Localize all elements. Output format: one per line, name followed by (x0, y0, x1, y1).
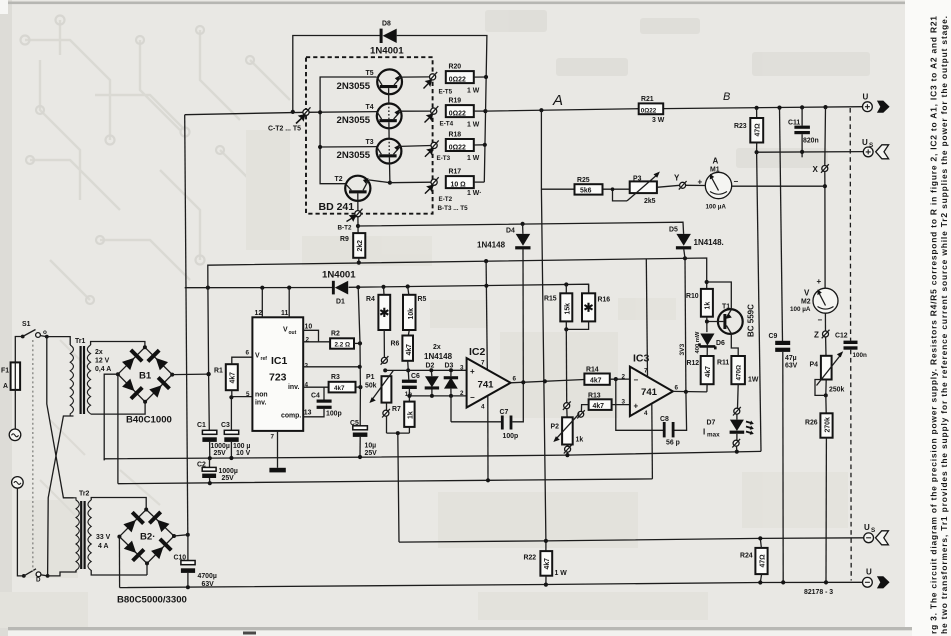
capacitor C3 (221, 422, 251, 458)
marker X (813, 164, 829, 174)
svg-text:IC1: IC1 (271, 355, 288, 367)
line L (raw supply pull-up) (208, 258, 707, 289)
node R1 bottom pin5 (229, 395, 233, 399)
wire P1/R7 bottoms to sense (387, 433, 410, 542)
svg-text:B40C1000: B40C1000 (126, 415, 172, 426)
pin 3 (303, 362, 360, 369)
svg-text:R17: R17 (449, 169, 462, 176)
resistor R5 (403, 287, 426, 336)
svg-text:V: V (804, 288, 810, 297)
transistor T1 BC559C (707, 282, 756, 356)
IC3 output line (673, 390, 707, 393)
node M2 column top (823, 105, 827, 109)
IC3 pin4 stub to rail2 (651, 404, 654, 479)
svg-text:7: 7 (271, 434, 275, 441)
IC2 pin7 stub (486, 261, 487, 369)
svg-text:1N4001: 1N4001 (370, 46, 404, 57)
node R23 top (755, 106, 759, 110)
M2 column vertical (824, 107, 827, 288)
svg-text:U: U (866, 567, 872, 576)
resistor R26 (805, 395, 833, 582)
svg-text:11: 11 (281, 310, 288, 317)
capacitor C1 (197, 422, 230, 459)
svg-text:100p: 100p (326, 411, 342, 418)
svg-text:R2: R2 (331, 331, 340, 338)
transistor T2 BD241 (319, 176, 390, 213)
svg-text:3: 3 (460, 364, 464, 371)
svg-text:4k7: 4k7 (544, 558, 551, 570)
potentiometer P2 (551, 401, 584, 455)
capacitor C8 feedback (616, 379, 687, 446)
svg-text:4k7: 4k7 (406, 344, 413, 356)
svg-text:U: U (862, 138, 868, 147)
svg-text:1000µ: 1000µ (211, 443, 230, 450)
svg-text:T2: T2 (335, 176, 343, 183)
svg-text:470Ω: 470Ω (736, 365, 743, 381)
svg-text:BD 241: BD 241 (319, 201, 355, 213)
svg-text:63V: 63V (785, 363, 798, 370)
svg-text:R21: R21 (641, 96, 654, 103)
wire terminal2 to bottom switch (17, 488, 23, 576)
resistor R2 (330, 331, 360, 349)
svg-text:100p: 100p (503, 433, 519, 440)
Us plus sense line (757, 151, 864, 154)
marker B-T2 (338, 193, 363, 231)
svg-text:D5: D5 (669, 227, 678, 234)
svg-text:270k: 270k (825, 417, 832, 432)
line K (base drive) (358, 222, 684, 234)
LED D7 (703, 407, 754, 452)
marker Z (814, 313, 830, 339)
svg-text:10: 10 (305, 324, 313, 331)
svg-text:1 W: 1 W (467, 122, 480, 129)
node rail / shunt tap (539, 108, 543, 112)
node T1 base R10 D6 (705, 320, 709, 324)
svg-text:P4: P4 (810, 361, 819, 368)
svg-text:0Ω22: 0Ω22 (449, 77, 466, 84)
wire Tr1 sec bottom to B1 (91, 402, 146, 414)
svg-text:S: S (871, 527, 875, 534)
svg-text:100n: 100n (853, 352, 868, 359)
pin3 line (385, 369, 466, 371)
svg-text:4: 4 (481, 403, 485, 410)
resistor R17 (446, 169, 485, 197)
svg-text:5k6: 5k6 (580, 188, 592, 195)
wire Tr2 sec bottom to B2 (91, 570, 147, 575)
svg-text:C11: C11 (788, 119, 800, 126)
svg-text:C9: C9 (769, 333, 778, 340)
svg-text:250k: 250k (829, 386, 844, 393)
svg-text:10 V: 10 V (236, 450, 251, 457)
wire Tr1 primary bottom crossover (48, 416, 74, 576)
transistor T3 2N3055 (337, 139, 432, 164)
svg-text:6: 6 (246, 350, 250, 357)
svg-text:R16: R16 (598, 296, 611, 303)
svg-text:M2: M2 (801, 298, 811, 305)
Us minus sense line (399, 538, 864, 542)
wire Tr2 sec top to B2 (91, 498, 146, 510)
node rail M pin12 (260, 286, 264, 290)
svg-text:D8: D8 (382, 21, 391, 28)
svg-text:C8: C8 (660, 416, 669, 423)
pin 10 and pin 2 jumper (303, 324, 330, 344)
svg-text:out: out (289, 330, 297, 336)
resistor R10 (686, 289, 713, 332)
svg-text:25V: 25V (222, 475, 235, 482)
collector bus (320, 77, 377, 184)
svg-text:U: U (863, 93, 869, 102)
svg-text:R20: R20 (449, 64, 462, 71)
svg-text:1 W·: 1 W· (467, 190, 482, 197)
resistor R19 (446, 98, 486, 129)
resistor R21 (639, 96, 665, 124)
svg-text:2: 2 (306, 337, 310, 344)
wire base to R9 (357, 217, 359, 233)
main positive rail (485, 107, 862, 111)
bottom rail (U minus) (120, 582, 863, 587)
wire fuse to mains terminal (14, 390, 16, 429)
svg-text:13: 13 (304, 410, 312, 417)
svg-text:R6: R6 (391, 340, 400, 347)
potentiometer P3 (603, 172, 680, 205)
resistor R23 (734, 108, 763, 152)
capacitor C5 (350, 420, 377, 457)
diode on BR edge (148, 376, 171, 399)
rail1 right end riser to Us+ (757, 152, 761, 451)
svg-text:T3: T3 (366, 139, 374, 146)
svg-text:3: 3 (622, 398, 626, 405)
transistor T5 2N3055 (337, 69, 430, 94)
svg-text:B: B (723, 91, 730, 103)
IC1 723 voltage regulator (252, 317, 303, 431)
wire B2 bottom vertex to AC line (146, 563, 148, 575)
voltmeter M2 (790, 277, 838, 325)
svg-text:T4: T4 (366, 104, 374, 111)
node rail M pin11 (287, 286, 291, 290)
capacitor C2 (197, 458, 238, 483)
capacitor C10 (174, 535, 217, 589)
svg-text:B-T2: B-T2 (338, 225, 352, 232)
svg-text:S1: S1 (22, 321, 31, 328)
svg-text:2N3055: 2N3055 (337, 150, 371, 161)
svg-text:+: + (470, 367, 475, 376)
SIDEBAR (905, 0, 951, 636)
svg-text:E-T4: E-T4 (440, 121, 454, 128)
resistor R11 (717, 356, 759, 408)
resistor R20 (446, 64, 486, 95)
svg-text:820n: 820n (803, 138, 819, 145)
svg-text:2x: 2x (95, 349, 103, 356)
svg-text:inv.: inv. (288, 384, 299, 391)
marker E-T3 (425, 140, 451, 162)
rail 2 (118, 479, 653, 484)
switch linkage (dashed) (32, 340, 34, 571)
svg-text:B80C5000/3300: B80C5000/3300 (117, 595, 187, 606)
capacitor C6 (402, 373, 420, 402)
diode D4 (477, 224, 531, 382)
svg-text:Y: Y (674, 173, 680, 182)
resistor R1 (214, 357, 252, 397)
svg-text:D7: D7 (707, 419, 716, 426)
svg-text:100 µA: 100 µA (790, 306, 811, 313)
wire B2 minus to bottom rail (118, 537, 120, 588)
svg-text:4k7: 4k7 (334, 385, 345, 392)
svg-text:C3: C3 (221, 422, 230, 429)
resistor R18 (446, 132, 485, 162)
svg-text:max: max (707, 431, 720, 438)
svg-text:V: V (255, 353, 260, 360)
svg-text:inv.: inv. (255, 400, 266, 407)
svg-text:3 W: 3 W (652, 117, 665, 124)
svg-text:ref: ref (261, 356, 268, 362)
resistor R15 (544, 285, 572, 330)
svg-text:R9: R9 (340, 236, 349, 243)
svg-text:1W: 1W (748, 376, 759, 383)
wire B1 minus to rail2 (117, 374, 119, 484)
svg-text:−: − (818, 316, 823, 325)
svg-text:A: A (552, 92, 563, 109)
marker Y (674, 173, 705, 189)
bridge rectifier B2 (117, 508, 187, 606)
svg-text:2k5: 2k5 (644, 198, 656, 205)
svg-text:R23: R23 (734, 123, 747, 130)
terminal U minus (863, 567, 890, 588)
diode D8 (370, 21, 404, 57)
svg-text:56 p: 56 p (666, 439, 680, 446)
wire B2 plus (174, 535, 188, 536)
resistor R14 (584, 367, 630, 385)
svg-text:C6: C6 (411, 373, 420, 380)
capacitor C4 (303, 387, 342, 417)
svg-text:−: − (734, 177, 739, 186)
svg-text:D: D (36, 577, 41, 584)
svg-text:47Ω: 47Ω (755, 123, 762, 137)
svg-text:2k2: 2k2 (357, 240, 364, 252)
IC2 output line (511, 380, 585, 383)
op-amp IC3 741 (622, 353, 679, 417)
svg-text:C-T2 ... T5: C-T2 ... T5 (268, 126, 301, 133)
svg-text:3V3: 3V3 (679, 343, 686, 355)
svg-text:4k7: 4k7 (593, 403, 605, 410)
svg-text:C12: C12 (835, 333, 848, 340)
wire Tr1 sec top to B1 (91, 342, 145, 348)
svg-text:1k: 1k (705, 302, 712, 310)
node C6 bottom pin2 line (407, 394, 411, 398)
wire switch to fuse (15, 337, 22, 363)
svg-text:723: 723 (269, 372, 287, 384)
svg-text:3: 3 (305, 362, 309, 369)
svg-text:IC2: IC2 (469, 346, 486, 358)
diode on BL edge (121, 377, 144, 400)
svg-text:R24: R24 (740, 553, 753, 560)
transformer Tr2 (74, 491, 111, 571)
svg-text:15k: 15k (565, 303, 572, 315)
svg-text:12: 12 (255, 310, 263, 317)
wire M1 minus to X column (732, 185, 825, 187)
svg-text:1 W: 1 W (467, 88, 480, 95)
pin 11 (281, 288, 289, 318)
svg-text:0Ω22: 0Ω22 (449, 111, 466, 118)
svg-text:D1: D1 (336, 299, 345, 306)
pin 7 ground bar (269, 431, 285, 473)
wire to Tr1 primary top (47, 337, 70, 345)
svg-text:E-T5: E-T5 (439, 89, 453, 96)
svg-text:4: 4 (644, 410, 648, 417)
svg-text:100 µA: 100 µA (706, 204, 727, 211)
svg-text:47Ω: 47Ω (759, 554, 766, 568)
svg-text:741: 741 (641, 387, 658, 398)
svg-text:1k: 1k (576, 436, 584, 443)
svg-text:47µ: 47µ (785, 355, 797, 362)
wire B1 plus (172, 373, 208, 376)
svg-text:1 W: 1 W (555, 570, 568, 577)
svg-text:1k: 1k (408, 411, 415, 419)
svg-text:D3: D3 (445, 363, 454, 370)
diode D2 (424, 344, 453, 398)
svg-text:400 mW: 400 mW (695, 331, 701, 353)
node rail M R4 (381, 285, 385, 289)
wire switch node down left vertical (47, 337, 74, 498)
svg-text:he two transformers, Tr1 provi: he two transformers, Tr1 provides the su… (939, 16, 949, 634)
diode D1 (322, 269, 356, 305)
svg-text:−: − (470, 393, 475, 402)
svg-text:D2: D2 (426, 363, 435, 370)
svg-text:0,4 A: 0,4 A (95, 366, 111, 373)
svg-text:2: 2 (460, 390, 464, 397)
svg-text:comp.: comp. (281, 413, 301, 420)
svg-text:Z: Z (814, 331, 819, 340)
node C11 top (800, 105, 804, 109)
marker E-T4 (425, 106, 454, 127)
capacitor C9 (769, 108, 798, 583)
svg-text:P2: P2 (551, 424, 560, 431)
svg-text:U: U (864, 523, 870, 532)
bridge rectifier B1 (116, 345, 174, 425)
svg-text:X: X (813, 165, 819, 174)
wire R1 node down to C3 (230, 397, 232, 430)
terminal Us minus (864, 523, 889, 545)
svg-text:4k7: 4k7 (705, 366, 712, 378)
svg-text:+: + (817, 277, 822, 286)
marker E-T5 (424, 72, 453, 96)
svg-text:2x: 2x (433, 344, 441, 351)
svg-text:10µ: 10µ (365, 443, 377, 450)
marker C-T2 (268, 107, 311, 132)
wire D8 loop (293, 36, 487, 183)
svg-text:R10: R10 (686, 293, 699, 300)
node C9 top (777, 106, 781, 110)
resistor R12 (687, 356, 714, 392)
resistor R9 (340, 233, 365, 263)
diode on TL edge (120, 349, 143, 372)
capacitor C11 (788, 107, 819, 157)
terminal Us plus (862, 138, 889, 159)
mains terminal 2 (12, 477, 24, 489)
op-amp IC2 741 (460, 346, 517, 410)
svg-text:R18: R18 (449, 132, 462, 139)
resistor R22 (524, 551, 568, 585)
resistor R7 (392, 402, 415, 434)
svg-text:R22: R22 (524, 555, 537, 562)
svg-text:R4: R4 (366, 296, 375, 303)
svg-text:4k7: 4k7 (590, 378, 602, 385)
IC2 pin4 stub (487, 396, 489, 480)
pin 12 (255, 288, 263, 318)
svg-text:non: non (255, 392, 268, 399)
svg-text:50k: 50k (365, 382, 377, 389)
svg-text:82178 - 3: 82178 - 3 (804, 589, 833, 596)
svg-text:2: 2 (622, 374, 626, 381)
IC3 pin7 stub (646, 259, 647, 377)
svg-text:1N4001: 1N4001 (322, 269, 356, 280)
svg-text:C7: C7 (500, 409, 509, 416)
svg-text:Tr1: Tr1 (75, 338, 86, 345)
rail 1 (common) (104, 451, 761, 460)
ammeter M1 (698, 156, 739, 210)
svg-text:+: + (634, 402, 639, 411)
svg-text:1 W: 1 W (467, 155, 480, 162)
svg-text:4 A: 4 A (98, 543, 108, 550)
svg-text:741: 741 (478, 379, 495, 390)
svg-text:R12: R12 (687, 360, 700, 367)
potentiometer P1 (365, 356, 393, 433)
rail M right part (349, 284, 589, 293)
svg-text:R5: R5 (418, 296, 427, 303)
svg-text:12 V: 12 V (95, 358, 110, 365)
node top switch (45, 335, 49, 339)
svg-text:10k: 10k (408, 308, 415, 320)
svg-text:25V: 25V (214, 450, 227, 457)
svg-text:R15: R15 (544, 295, 557, 302)
svg-text:25V: 25V (365, 450, 378, 457)
svg-text:R1: R1 (214, 368, 223, 375)
svg-text:R3: R3 (331, 374, 340, 381)
dashed enclosure around T2..T5 (306, 57, 433, 214)
marker E-T2 (425, 177, 468, 212)
diode on TR edge (146, 349, 169, 372)
terminal U plus (863, 93, 890, 113)
potentiometer P4 (810, 337, 845, 397)
svg-text:B2·: B2· (140, 532, 155, 543)
base chain T5..T3 to T2 emitter (389, 88, 390, 183)
svg-text:R7: R7 (392, 406, 401, 413)
T2 emitter row to R17 (390, 181, 431, 184)
shunt vertical to R25 and down to R22 (541, 110, 574, 551)
svg-text:2N3055: 2N3055 (337, 81, 371, 92)
svg-text:A: A (713, 156, 719, 165)
svg-text:A: A (3, 383, 8, 390)
diode D3 (444, 363, 458, 398)
node rail M / line L drop (206, 286, 210, 290)
mains terminal 1 (9, 429, 21, 441)
pin 4 wire and resistor R3 (303, 374, 360, 392)
svg-text:1N4148.: 1N4148. (694, 238, 724, 247)
wire B2 plus riser (185, 115, 188, 535)
svg-text:C1: C1 (197, 422, 206, 429)
vertical from rail M through R2 C5 (358, 287, 360, 426)
node R6 lead pin3 line (406, 368, 410, 372)
svg-text:D4: D4 (506, 227, 515, 234)
svg-text:10 Ω: 10 Ω (451, 182, 467, 189)
wire Tr2 primary bottom (48, 570, 76, 576)
resistor R6 (391, 336, 414, 380)
wire pin5 (231, 396, 252, 398)
switch S1 top pole (21, 321, 47, 338)
svg-text:F1: F1 (1, 368, 9, 375)
svg-text:6: 6 (675, 384, 679, 391)
svg-text:7: 7 (481, 359, 485, 366)
svg-text:rg 3. The circuit diagram of t: rg 3. The circuit diagram of the precisi… (929, 16, 939, 634)
